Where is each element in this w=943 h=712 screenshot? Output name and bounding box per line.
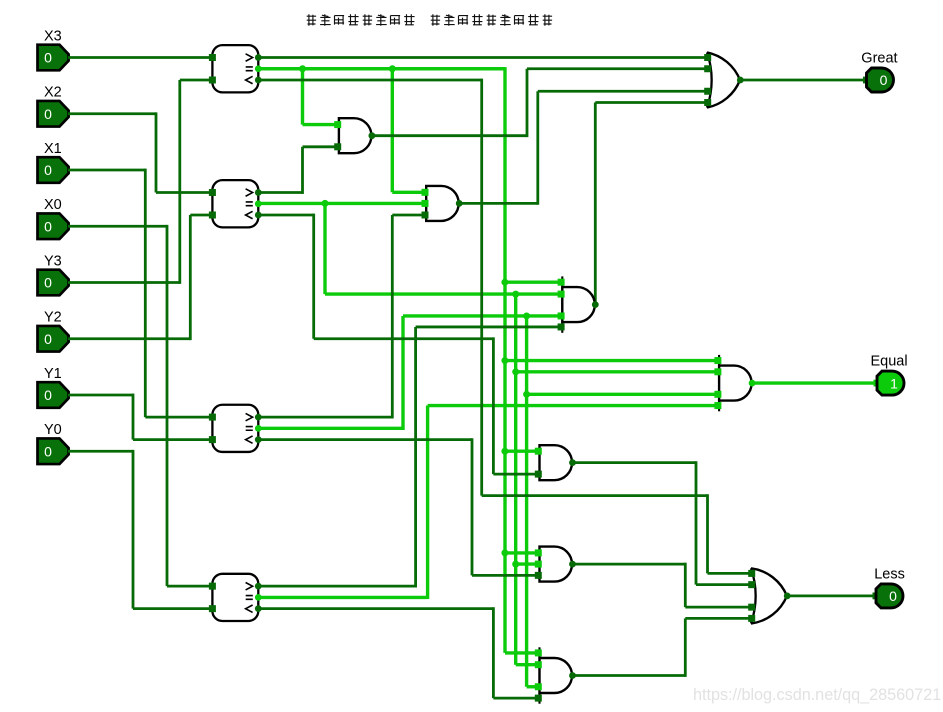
wire G6 output horizontal [573,674,686,677]
wire X1 horizontal [68,169,145,172]
pin OR2 input 2 [748,581,755,588]
wire U4.gt vertical up [414,327,417,588]
pin G7 input 4 [714,402,721,409]
svg-text:X0: X0 [44,197,62,213]
svg-text:0: 0 [44,218,52,234]
AND gate G1 [339,118,372,153]
node pin U1 output eq [255,65,262,72]
node pin OR2 output [784,593,791,600]
input pin Y2 [38,310,69,352]
input pin X1 [38,141,69,183]
wire U1.eq horizontal bus [258,67,505,70]
node pin U2 output gt [255,189,262,196]
wire X1 vertical [144,169,147,418]
wire X0 horizontal [68,225,167,228]
wire U2.eq long vertical [514,294,517,665]
svg-text:0: 0 [44,275,52,291]
node pin G1 output [369,132,376,139]
comparator U2 [212,180,258,227]
wire U3.lt to G5 input 3 [472,574,540,577]
OR gate OR1 [707,52,740,107]
wire U1.eq to G5 input 1 [505,551,540,554]
AND gate G6 [540,647,573,703]
node pin G7 output [749,380,756,387]
wire U1.lt horizontal 2 [482,494,708,497]
svg-text:0: 0 [44,443,52,459]
pin G5 input 2 [535,561,542,568]
wire X2 to U2.A [156,191,213,194]
node pin U3 output gt [255,414,262,421]
output pin Great [861,51,897,93]
wire G3 output vertical up [594,103,597,307]
wire U3.eq to G7 input 3 [527,393,721,396]
node pin U1 output lt [255,77,262,84]
node pin G5 output [569,561,576,568]
svg-text:Less: Less [874,566,905,582]
node pin U3 output eq [255,425,262,432]
wire U3.eq to G3 input 3 [403,314,562,317]
output pin Less [873,566,905,608]
wire G1 to OR1 input 2 [527,67,707,70]
wire U4.lt vertical [492,607,495,698]
AND gate G5 [540,547,572,582]
wire U2.gt horizontal [258,191,302,194]
pin G3 input 4 [558,323,565,330]
wire Y3 vertical [178,80,181,284]
wire G2 output vertical up [536,91,539,205]
pin G2 input 1 [422,189,429,196]
wire U2.eq branch down [323,203,326,294]
wire G6 output vertical up [684,618,687,677]
wire Y1 to U3.B [133,438,213,441]
wire U1.eq to G1 input 1 [303,123,339,126]
AND gate G2 [426,186,459,221]
pin G2 input 3 [422,212,429,219]
wire U4.eq horizontal [258,596,427,599]
wire G2 output horizontal [460,202,538,205]
wire G2 to OR1 input 3 [538,90,707,93]
wire U1.lt long vertical [480,79,483,496]
node pin U4 output gt [255,583,262,590]
wire Y3 horizontal [68,281,180,284]
AND gate G3 [562,276,595,332]
svg-text:0: 0 [44,50,52,66]
wire X3 to U1.A [68,56,213,59]
svg-text:Y2: Y2 [44,310,62,326]
input pin X0 [38,197,69,239]
wire G1 output horizontal [370,134,527,137]
wire U3.eq vertical up [401,316,404,430]
wire G5 output horizontal [573,563,686,566]
wire U2.lt horizontal [258,214,313,217]
node U3.eq junction b [523,391,530,398]
wire U1.eq branch down to G2 [391,69,394,193]
svg-text:Y1: Y1 [44,366,62,382]
wire U2.eq to G5 input 2 [516,562,540,565]
svg-text:0: 0 [44,106,52,122]
wire Y2 horizontal [68,337,190,340]
pin G7 input 1 [714,357,721,364]
wire U3.gt horizontal [258,416,392,419]
wire Y0 vertical [132,450,135,609]
comparator U1 [212,45,258,92]
wire G5 output vertical down [684,563,687,607]
wire U1.eq to G3 input 1 [505,281,562,284]
pin G5 input 3 [535,572,542,579]
wire Y2 to U2.B [190,214,213,217]
wire G4 output horizontal [573,461,697,464]
pin U4 input B [209,605,216,612]
node pin U2 output lt [255,212,262,219]
input pin Y1 [38,366,69,408]
svg-text:0: 0 [44,162,52,178]
svg-text:0: 0 [44,387,52,403]
wire G4 to OR2 input 2 [696,583,752,586]
pin OR2 input 4 [748,615,755,622]
node U1.eq junction d [501,357,508,364]
wire U1.lt vertical 2 [706,494,709,573]
wire U1.lt horizontal [258,79,481,82]
node pin U2 output eq [255,200,262,207]
pin OR1 input 4 [704,99,711,106]
wire U1.eq to G7 input 1 [505,359,720,362]
wire Y1 vertical [132,394,135,440]
node pin U1 output gt [255,54,262,61]
wire U3.eq long vertical [525,316,528,687]
svg-text:X2: X2 [44,85,62,101]
node U1.eq junction f [501,549,508,556]
node pin G6 output [569,672,576,679]
pin OR2 input 1 [748,570,755,577]
wire U1.lt to OR2 input 1 [708,572,753,575]
pin OR1 input 1 [704,54,711,61]
wire X0 to U4.A [167,585,213,588]
pin G3 input 2 [558,291,565,298]
wire OR2 output to Less pin [787,595,877,598]
node pin G2 output [456,200,463,207]
pin U2 input B [209,212,216,219]
wire U3.gt to G2 input 3 [392,214,426,217]
input pin X3 [38,28,69,70]
node U1.eq junction a [299,65,306,72]
node U2.eq junction g [512,561,519,568]
wire U2.eq to G3 input 2 [325,292,562,295]
node U2.eq junction a [322,200,329,207]
wire U2.gt vertical up [301,147,304,194]
wire G5 to OR2 input 3 [685,606,752,609]
wire U4.lt to G6 input 4 [493,697,540,700]
wire X2 vertical [155,112,158,192]
pin G6 input 2 [535,661,542,668]
wire G3 to OR1 input 4 [595,101,707,104]
wire G6 to OR2 input 4 [685,617,752,620]
svg-text:Y3: Y3 [44,253,62,269]
wire U3.eq horizontal [258,427,403,430]
wire OR1 output to Great pin [740,79,868,82]
pin G1 input 1 [334,121,341,128]
node U2.eq junction c [512,368,519,375]
svg-text:0: 0 [880,72,888,88]
wire U1.eq branch down to G1 [301,69,304,125]
AND gate G7 [719,355,752,411]
pin G6 input 3 [535,683,542,690]
pin U1 input A [209,54,216,61]
input pin Y3 [38,253,69,295]
pin U2 input A [209,189,216,196]
node U1.eq junction e [501,448,508,455]
wire X0 vertical [166,225,169,586]
svg-text:0: 0 [889,588,897,604]
wire U4.eq to G7 input 4 [428,404,720,407]
pin OR1 input 3 [704,88,711,95]
pin U1 input B [209,77,216,84]
node U1.eq junction c [501,279,508,286]
wire U3.lt horizontal [258,438,472,441]
input pin X2 [38,85,69,127]
pin G2 input 2 [422,200,429,207]
pin U3 input B [209,436,216,443]
wire U2.lt vertical [312,214,315,339]
comparator U3 [212,405,258,452]
wire G4 output vertical down [695,461,698,584]
svg-text:1: 1 [890,375,898,391]
wire U4.gt horizontal [258,585,415,588]
wire U3.eq to G6 input 3 [527,685,540,688]
wire Y2 vertical [189,215,192,340]
svg-text:Y0: Y0 [44,422,62,438]
pin OR2 input 3 [748,604,755,611]
wire U1.eq to G2 input 1 [392,191,426,194]
node pin G4 output [569,459,576,466]
node U2.eq junction b [512,291,519,298]
pin G7 input 2 [714,368,721,375]
svg-text:https://blog.csdn.net/qq_28560: https://blog.csdn.net/qq_28560721 [693,686,941,704]
pin G3 input 1 [558,279,565,286]
wire U1.eq to G6 input 1 [505,651,540,654]
wire U1.eq to G4 input 1 [505,450,540,453]
pin G6 input 4 [535,695,542,702]
wire Y1 horizontal [68,394,133,397]
wire Y3 to U1.B [180,79,213,82]
wire U2.lt vertical 2 [492,337,495,474]
svg-text:Great: Great [861,51,897,67]
node pin G3 output [592,301,599,308]
wire U4.gt to G3 input 4 [416,326,563,329]
pin U3 input A [209,414,216,421]
node pin U4 output lt [255,605,262,612]
pin OR1 input 2 [704,65,711,72]
wire X2 horizontal [68,112,156,115]
pin G1 input 2 [334,143,341,150]
pin G6 input 1 [535,649,542,656]
wire Y0 horizontal [68,450,133,453]
AND gate G4 [540,445,573,480]
node pin U3 output lt [255,436,262,443]
wire U2.eq to G7 input 2 [516,370,720,373]
wire Y0 to U4.B [133,607,213,610]
pin G7 input 3 [714,391,721,398]
pin G5 input 1 [535,549,542,556]
node U1.eq junction b [389,65,396,72]
pin U4 input A [209,583,216,590]
OR gate OR2 [751,568,787,623]
wire U2.eq to G6 input 2 [516,663,540,666]
pin G3 input 3 [558,312,565,319]
input pin Y0 [38,422,69,464]
wire U2.lt horizontal 2 [314,337,494,340]
wire G7 output to Equal pin [752,381,878,384]
svg-text:X1: X1 [44,141,62,157]
comparator U4 [212,574,258,621]
svg-text:Equal: Equal [871,354,908,370]
svg-text:0: 0 [44,331,52,347]
node pin U4 output eq [255,594,262,601]
node U3.eq junction a [523,312,530,319]
pin G4 input 2 [535,471,542,478]
wire U1.gt to OR1 input 1 [258,56,707,59]
output pin Equal [871,354,908,396]
wire G1 output vertical up [526,69,529,137]
wire U3.gt vertical up [391,215,394,419]
svg-text:X3: X3 [44,28,62,44]
pin G4 input 1 [535,448,542,455]
node pin OR1 output [737,77,744,84]
wire U3.lt vertical [471,438,474,575]
wire X1 to U3.A [145,416,213,419]
wire U2.gt to G1 input 2 [303,145,339,148]
wire U1.eq long vertical [503,67,506,653]
wire U4.eq vertical up [426,406,429,599]
wire U4.lt horizontal [258,607,493,610]
title text 比较器一定要区别 比较补码和无符号数 [307,14,552,26]
wire U2.lt to G4 input 2 [493,473,540,476]
wire U2.eq to G2 input 2 [258,202,426,205]
